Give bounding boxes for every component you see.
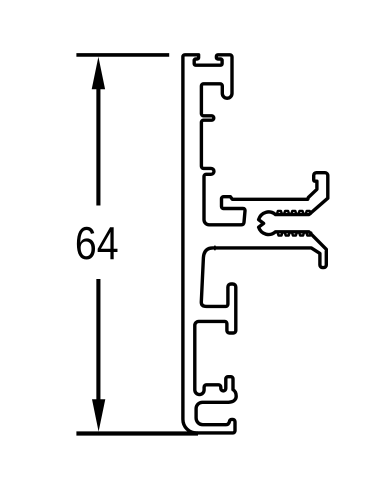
dimension bottom line	[76, 431, 198, 435]
dimension shaft upper	[96, 87, 100, 206]
junction tick on lower arm	[214, 246, 216, 251]
dimension top line	[76, 53, 169, 57]
extrusion profile outline	[183, 55, 328, 433]
svg-text:64: 64	[75, 218, 119, 270]
dimension shaft lower	[96, 279, 100, 401]
arrowhead down	[92, 399, 105, 431]
arrowhead up	[92, 57, 105, 90]
serration teeth upper jaw	[277, 211, 311, 214]
serration teeth lower jaw	[278, 233, 312, 236]
